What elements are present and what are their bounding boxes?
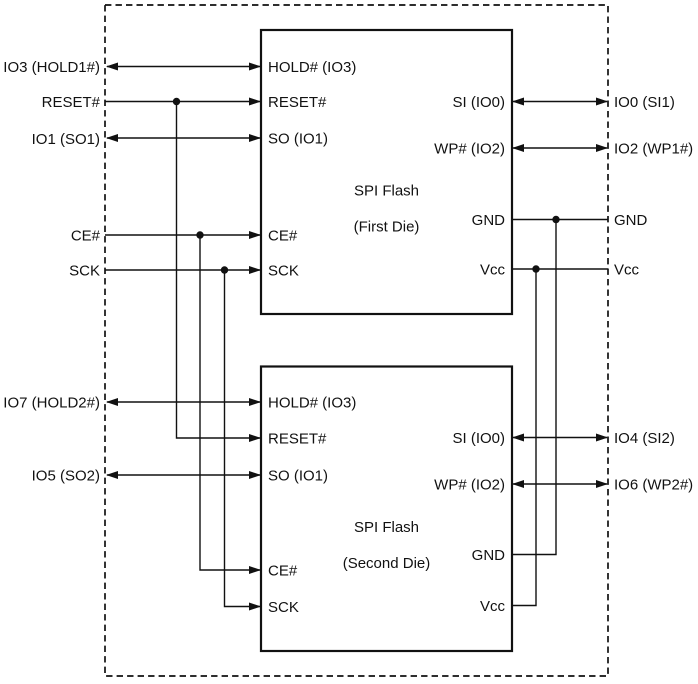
wire SCK to U1 SCK xyxy=(105,269,260,271)
svg-text:HOLD# (IO3): HOLD# (IO3) xyxy=(268,59,356,76)
svg-text:SI (IO0): SI (IO0) xyxy=(452,94,505,111)
wire U2 SI to IO4/SI2 (double arrow) xyxy=(513,437,607,439)
wire IO5/SO2 to U2 SO (double arrow) xyxy=(107,474,260,476)
SPI Flash first die U1 (box) xyxy=(261,30,512,314)
junction GND xyxy=(552,216,559,223)
svg-text:IO6 (WP2#): IO6 (WP2#) xyxy=(614,477,693,494)
svg-text:GND: GND xyxy=(472,547,506,564)
svg-text:CE#: CE# xyxy=(268,228,298,245)
svg-text:RESET#: RESET# xyxy=(42,94,101,111)
wire IO3/HOLD1# to U1 HOLD# (double arrow) xyxy=(107,66,260,68)
wire GND rail U1 to U2 xyxy=(513,220,556,555)
wire U2 WP# to IO6/WP2# (double arrow) xyxy=(513,483,607,485)
svg-text:GND: GND xyxy=(472,212,506,229)
svg-text:IO2 (WP1#): IO2 (WP1#) xyxy=(614,141,693,158)
svg-text:SI (IO0): SI (IO0) xyxy=(452,430,505,447)
wire U1 WP# to IO2/WP1# (double arrow) xyxy=(513,147,607,149)
svg-text:SCK: SCK xyxy=(268,599,299,616)
junction Vcc xyxy=(532,265,539,272)
svg-text:SCK: SCK xyxy=(69,263,100,280)
svg-text:CE#: CE# xyxy=(71,228,101,245)
svg-text:HOLD# (IO3): HOLD# (IO3) xyxy=(268,395,356,412)
svg-text:Vcc: Vcc xyxy=(614,262,640,279)
svg-text:WP# (IO2): WP# (IO2) xyxy=(434,477,505,494)
junction RESET# xyxy=(173,98,180,105)
svg-text:(Second Die): (Second Die) xyxy=(343,555,431,572)
package boundary (dashed outline) xyxy=(105,5,608,676)
svg-text:IO1 (SO1): IO1 (SO1) xyxy=(32,131,100,148)
svg-text:IO5 (SO2): IO5 (SO2) xyxy=(32,468,100,485)
svg-text:GND: GND xyxy=(614,212,648,229)
SPI Flash second die U2 (box) xyxy=(261,367,512,652)
junction SCK xyxy=(221,266,228,273)
svg-text:WP# (IO2): WP# (IO2) xyxy=(434,141,505,158)
svg-text:IO7 (HOLD2#): IO7 (HOLD2#) xyxy=(3,395,100,412)
svg-text:IO3 (HOLD1#): IO3 (HOLD1#) xyxy=(3,59,100,76)
wire Vcc rail U1 to U2 xyxy=(513,269,536,606)
svg-text:IO4 (SI2): IO4 (SI2) xyxy=(614,430,675,447)
svg-text:RESET#: RESET# xyxy=(268,94,327,111)
wire SCK rail down to U2 xyxy=(225,270,261,607)
wire U1 Vcc to Vcc xyxy=(513,268,608,270)
svg-text:RESET#: RESET# xyxy=(268,431,327,448)
wire CE# rail down to U2 xyxy=(200,235,260,570)
svg-text:SCK: SCK xyxy=(268,263,299,280)
svg-text:SO (IO1): SO (IO1) xyxy=(268,468,328,485)
wire RESET# rail down to U2 xyxy=(177,102,261,439)
wire U1 GND to GND xyxy=(513,219,608,221)
svg-text:(First Die): (First Die) xyxy=(354,219,420,236)
svg-text:CE#: CE# xyxy=(268,563,298,580)
wire U1 SI to IO0/SI1 (double arrow) xyxy=(513,101,607,103)
wire IO1/SO1 to U1 SO (double arrow) xyxy=(107,137,260,139)
svg-text:SPI Flash: SPI Flash xyxy=(354,183,419,200)
svg-text:Vcc: Vcc xyxy=(480,598,506,615)
svg-text:IO0 (SI1): IO0 (SI1) xyxy=(614,94,675,111)
wire IO7/HOLD2# to U2 HOLD# (double arrow) xyxy=(107,401,260,403)
junction CE# xyxy=(196,231,203,238)
svg-text:SPI Flash: SPI Flash xyxy=(354,519,419,536)
wire RESET# to U1 RESET# xyxy=(105,101,260,103)
wire CE# to U1 CE# xyxy=(105,234,260,236)
svg-text:Vcc: Vcc xyxy=(480,262,506,279)
svg-text:SO (IO1): SO (IO1) xyxy=(268,131,328,148)
